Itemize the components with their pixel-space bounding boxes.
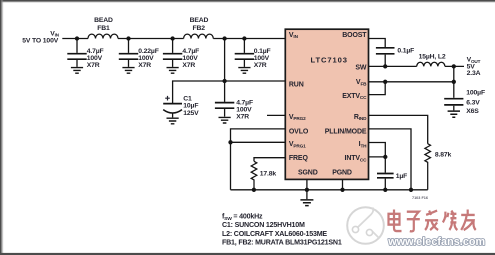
wire VPRG2 stub bbox=[267, 114, 285, 116]
ground main bbox=[300, 190, 313, 206]
svg-text:C1: C1 bbox=[183, 95, 192, 102]
svg-text:17.8k: 17.8k bbox=[260, 170, 277, 177]
svg-text:X7R: X7R bbox=[254, 62, 267, 69]
wire SGND pin bbox=[306, 179, 308, 189]
wire BOOST bbox=[369, 39, 386, 48]
ground bbox=[71, 68, 83, 74]
svg-text:7103 F16: 7103 F16 bbox=[412, 196, 428, 200]
svg-text:FREQ: FREQ bbox=[289, 155, 309, 162]
svg-text:100µF: 100µF bbox=[466, 90, 485, 97]
ground bbox=[219, 117, 231, 123]
wire ITH bbox=[369, 143, 386, 157]
svg-text:1µF: 1µF bbox=[396, 173, 407, 180]
watermark hanzi bbox=[389, 210, 476, 232]
ground output cap bbox=[448, 111, 460, 117]
svg-text:100V: 100V bbox=[138, 55, 154, 62]
svg-text:4.7µF: 4.7µF bbox=[182, 48, 199, 55]
svg-text:125V: 125V bbox=[183, 110, 199, 117]
svg-text:BOOST: BOOST bbox=[342, 32, 367, 39]
wire input rail bbox=[62, 38, 285, 40]
wire FREQ bbox=[254, 158, 285, 162]
svg-text:FB2: FB2 bbox=[193, 25, 206, 32]
svg-text:RUN: RUN bbox=[289, 82, 304, 89]
svg-text:PLLIN/MODE: PLLIN/MODE bbox=[325, 128, 367, 135]
capacitor 0.1uF boost bbox=[376, 47, 414, 66]
svg-text:X7R: X7R bbox=[87, 62, 100, 69]
ground bbox=[122, 68, 134, 74]
svg-text:BEAD: BEAD bbox=[190, 17, 209, 24]
capacitor 4.7uF input 2 bbox=[163, 39, 199, 69]
svg-text:C1: SUNCON 125HVH10M: C1: SUNCON 125HVH10M bbox=[222, 221, 305, 229]
svg-text:4.7µF: 4.7µF bbox=[236, 99, 253, 106]
svg-text:OVLO: OVLO bbox=[289, 128, 309, 135]
capacitor 0.22uF bbox=[119, 39, 159, 69]
svg-text:X7R: X7R bbox=[236, 114, 249, 121]
svg-text:8.87k: 8.87k bbox=[435, 152, 452, 159]
svg-text:6.3V: 6.3V bbox=[466, 99, 480, 106]
inductor L2 15uH bbox=[417, 53, 446, 66]
svg-text:0.1µF: 0.1µF bbox=[254, 48, 271, 55]
ferrite bead FB2 bbox=[184, 17, 214, 39]
svg-text:FB1: FB1 bbox=[97, 25, 110, 32]
resistor 17.8k bbox=[251, 161, 276, 190]
svg-text:www.elecfans.com: www.elecfans.com bbox=[387, 236, 485, 248]
wire VOUT down bbox=[453, 66, 455, 97]
wire bottom ground rail bbox=[231, 188, 428, 192]
ferrite bead FB1 bbox=[88, 17, 118, 39]
wire EXTVCC bbox=[369, 82, 386, 95]
svg-text:0.1µF: 0.1µF bbox=[397, 47, 414, 54]
svg-text:LTC7103: LTC7103 bbox=[311, 56, 348, 65]
capacitor C1 10uF electrolytic bbox=[163, 95, 199, 117]
wire RIND bbox=[369, 115, 428, 143]
node VIN input label bbox=[22, 30, 59, 44]
svg-text:X7R: X7R bbox=[182, 62, 195, 69]
svg-text:100V: 100V bbox=[236, 107, 252, 114]
wire PGND pin bbox=[342, 179, 344, 189]
capacitor 4.7uF at RUN bbox=[215, 99, 253, 120]
capacitor 4.7uF input 1 bbox=[67, 39, 103, 69]
svg-text:FB1, FB2: MURATA BLM31PG121SN1: FB1, FB2: MURATA BLM31PG121SN1 bbox=[222, 238, 342, 246]
wire VFB bbox=[369, 80, 456, 84]
watermark url bbox=[387, 236, 485, 248]
node junction dots input rail bbox=[75, 36, 247, 40]
ground bbox=[238, 68, 250, 74]
wire PLLIN/MODE bbox=[369, 129, 412, 190]
svg-text:15µH, L2: 15µH, L2 bbox=[419, 53, 446, 60]
wire vertical from input rail to RUN rail bbox=[222, 39, 226, 102]
node VOUT label bbox=[467, 57, 481, 77]
svg-text:10µF: 10µF bbox=[183, 103, 198, 110]
op-amp U1 LTC7103 regulator IC bbox=[285, 29, 368, 179]
resistor 8.87k bbox=[425, 144, 452, 190]
svg-text:0.22µF: 0.22µF bbox=[138, 48, 158, 55]
ground bbox=[167, 68, 179, 74]
wire RUN rail bbox=[173, 81, 286, 103]
svg-text:SW: SW bbox=[355, 64, 367, 71]
svg-text:2.3A: 2.3A bbox=[467, 70, 481, 77]
svg-text:SGND: SGND bbox=[298, 170, 318, 177]
watermark logo circle bbox=[347, 207, 384, 244]
svg-text:BEAD: BEAD bbox=[94, 17, 113, 24]
svg-text:X7R: X7R bbox=[138, 62, 151, 69]
svg-text:100V: 100V bbox=[87, 55, 103, 62]
svg-text:100V: 100V bbox=[182, 55, 198, 62]
wire SW bbox=[369, 64, 417, 68]
wire SW output bbox=[445, 64, 464, 68]
svg-text:4.7µF: 4.7µF bbox=[87, 48, 104, 55]
capacitor 1uF intvcc bbox=[377, 173, 407, 190]
svg-text:X6S: X6S bbox=[466, 108, 479, 115]
note annotations bbox=[222, 212, 342, 246]
capacitor 100uF output bbox=[444, 90, 485, 115]
capacitor 0.1uF input bbox=[235, 39, 271, 69]
wire INTVCC bbox=[369, 155, 388, 173]
svg-text:L2: COILCRAFT XAL6060-153ME: L2: COILCRAFT XAL6060-153ME bbox=[222, 230, 327, 238]
ground bbox=[167, 118, 179, 124]
svg-text:PGND: PGND bbox=[332, 170, 352, 177]
svg-text:5V TO 100V: 5V TO 100V bbox=[22, 38, 58, 45]
note figure number bbox=[412, 196, 428, 200]
wire VPRG1 bbox=[228, 140, 285, 144]
wire OVLO to bottom rail bbox=[231, 129, 286, 190]
svg-text:100V: 100V bbox=[254, 55, 270, 62]
